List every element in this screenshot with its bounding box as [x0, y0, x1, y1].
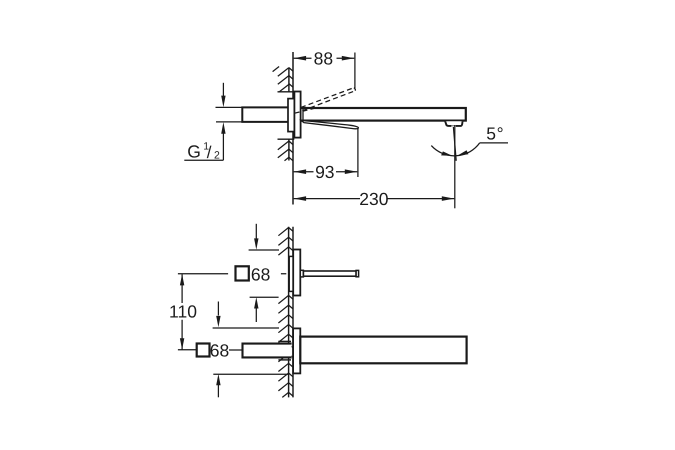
- svg-text:G: G: [187, 141, 201, 161]
- dim 93 line: [294, 171, 358, 173]
- ext line spout flange bottom: [213, 373, 288, 375]
- arrow bottom of handle flange: [254, 297, 258, 308]
- outlet 5deg line: [453, 127, 456, 161]
- handle flange: [293, 250, 300, 296]
- dim 88 arrows: [294, 56, 307, 61]
- outlet axis line: [454, 125, 456, 208]
- wall band inner line lower: [288, 139, 290, 160]
- dim 110 arrows: [180, 274, 184, 285]
- ext line handle flange top: [249, 249, 279, 251]
- outlet slot: [451, 125, 456, 127]
- wall surface line: [292, 52, 294, 205]
- leader 5deg: [480, 142, 508, 144]
- G1/2 underline: [184, 159, 223, 161]
- arc arrow right: [457, 150, 468, 156]
- svg-text:°: °: [497, 124, 504, 144]
- ext line handle flange bottom: [250, 296, 279, 298]
- label square 68 spout: [197, 344, 210, 357]
- G1/2 down arrow: [222, 83, 224, 97]
- lever solid: [301, 121, 358, 129]
- dim 230 arrows: [294, 196, 307, 201]
- sleeve behind flange: [288, 99, 294, 132]
- lever dashed tip hook: [354, 88, 356, 91]
- spout front: [300, 337, 466, 364]
- handle rod end cap: [356, 270, 359, 276]
- dim 88 extension right: [354, 53, 356, 89]
- dim 93 arrows: [294, 169, 307, 174]
- dim 88 line: [294, 57, 355, 59]
- wall cap above body: [278, 340, 291, 342]
- label square 68 handle: [236, 266, 249, 280]
- wall cap line upper: [278, 91, 295, 93]
- handle sleeve: [289, 256, 293, 291]
- wall cap line lower: [278, 138, 295, 140]
- handle rod: [303, 271, 356, 276]
- svg-text:68: 68: [251, 264, 270, 284]
- spout body: [299, 108, 466, 121]
- wall hatch upper: [273, 67, 293, 92]
- lever dashed up position: [295, 88, 356, 114]
- arc arrow left: [441, 151, 452, 156]
- dim 93 extension right (lever tip): [357, 128, 359, 177]
- G1/2 up arrow: [222, 134, 224, 161]
- pipe extension line top: [216, 106, 243, 108]
- dim 110 ext top: [178, 273, 286, 275]
- wall band inner line upper: [288, 68, 290, 92]
- pipe extension line bottom: [216, 121, 242, 123]
- outlet nub: [445, 121, 462, 126]
- spout collar joint: [302, 109, 304, 120]
- spout flange: [293, 328, 300, 373]
- handle hub: [300, 270, 303, 277]
- dim 110 line: [181, 274, 183, 349]
- wall flange: [294, 92, 300, 138]
- svg-text:230: 230: [359, 189, 388, 209]
- svg-text:88: 88: [314, 49, 333, 69]
- angle arc: [431, 143, 479, 156]
- svg-text:5: 5: [486, 124, 496, 144]
- arrow bottom of spout flange: [216, 374, 220, 385]
- spout body behind wall: [243, 344, 292, 358]
- ext line spout flange top: [213, 327, 279, 329]
- wall cap below body: [278, 359, 291, 361]
- wall band line left: [288, 227, 290, 398]
- svg-text:2: 2: [214, 149, 220, 161]
- svg-text:68: 68: [210, 340, 229, 360]
- svg-text:110: 110: [169, 302, 197, 322]
- dim 110 ext bottom: [178, 349, 243, 351]
- wall hatch lower: [278, 141, 293, 161]
- wall hatch lower view: [278, 228, 293, 398]
- supply pipe G1/2: [242, 107, 290, 122]
- svg-text:93: 93: [315, 162, 334, 182]
- dim 230 line: [294, 198, 455, 200]
- arrow top of spout flange: [217, 302, 219, 316]
- arrow top of handle flange: [255, 224, 257, 239]
- svg-text:/: /: [207, 143, 212, 162]
- wall band line right: [292, 227, 294, 398]
- label G 1/2: [187, 140, 220, 162]
